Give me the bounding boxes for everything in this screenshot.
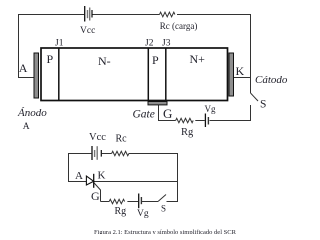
svg-text:K: K [98, 170, 106, 182]
svg-text:Vcc: Vcc [80, 26, 95, 36]
svg-text:A: A [23, 122, 30, 132]
svg-text:Rc (carga): Rc (carga) [160, 21, 198, 31]
svg-text:Rg: Rg [181, 127, 194, 138]
svg-text:Rc: Rc [116, 134, 128, 145]
svg-text:N-: N- [98, 54, 111, 68]
svg-text:Vg: Vg [205, 104, 216, 114]
svg-text:P: P [152, 53, 159, 67]
svg-text:N+: N+ [190, 52, 206, 66]
svg-text:Vg: Vg [137, 209, 149, 219]
svg-text:Cátodo: Cátodo [255, 74, 288, 86]
svg-text:J3: J3 [162, 39, 171, 49]
svg-text:Gate: Gate [133, 109, 155, 121]
svg-text:Ánodo: Ánodo [17, 107, 47, 119]
svg-text:S: S [161, 204, 166, 214]
svg-text:J1: J1 [55, 39, 64, 49]
svg-text:A: A [75, 170, 83, 182]
svg-text:J2: J2 [145, 39, 154, 49]
svg-text:S: S [260, 99, 266, 111]
svg-text:P: P [47, 52, 54, 66]
svg-text:G: G [163, 106, 172, 121]
svg-text:A: A [19, 61, 28, 75]
svg-text:G: G [91, 189, 100, 203]
svg-text:Rg: Rg [115, 206, 127, 217]
svg-text:Vcc: Vcc [89, 132, 106, 143]
svg-text:Figura 2.1: Estructura y símbo: Figura 2.1: Estructura y símbolo simplif… [94, 229, 237, 234]
svg-text:K: K [236, 64, 245, 78]
